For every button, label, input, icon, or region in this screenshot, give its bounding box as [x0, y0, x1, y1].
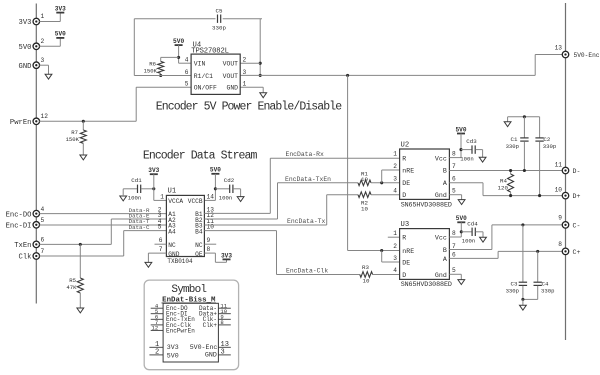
wire U1 GND pin7: [148, 253, 166, 262]
svg-text:8: 8: [220, 319, 223, 326]
svg-text:C1: C1: [511, 136, 518, 143]
wire U3 R stub: [388, 236, 400, 238]
junction 5V0-Enc / U3 enable: [346, 74, 349, 77]
wire Cd1 left: [123, 189, 137, 196]
ground (Cd3): [479, 157, 486, 162]
ground (U3): [458, 280, 465, 285]
wire R1/C1 pin6: [134, 75, 191, 77]
svg-text:330p: 330p: [506, 287, 519, 294]
symbol right pins lower: [190, 341, 231, 358]
resistor R5 47K: [66, 244, 83, 308]
svg-text:PwrEn: PwrEn: [10, 119, 32, 127]
junction PwrEn/R7: [82, 120, 85, 123]
wire 5V0 to VIN: [179, 45, 192, 63]
svg-text:C-: C-: [573, 222, 581, 229]
wire U2 A to D+: [449, 183, 562, 196]
svg-text:VCCB: VCCB: [188, 198, 203, 205]
svg-text:C+: C+: [573, 249, 581, 256]
junction 5V0/Cd2/VCCB: [214, 187, 217, 190]
svg-text:Enc-DI: Enc-DI: [6, 223, 32, 231]
svg-text:U3: U3: [401, 221, 410, 229]
svg-text:A4: A4: [168, 228, 176, 235]
pin 1 3V3: [19, 13, 45, 27]
ground (R5): [77, 308, 84, 313]
capacitor C5 330p: [212, 7, 226, 31]
svg-text:C3: C3: [511, 280, 518, 287]
svg-text:VIN: VIN: [194, 61, 206, 68]
svg-text:R7: R7: [71, 129, 78, 136]
svg-text:EncData-Tx: EncData-Tx: [287, 218, 326, 225]
junction 5V0/Cd3/Vcc U2: [459, 148, 462, 151]
svg-text:Clk: Clk: [19, 254, 32, 262]
svg-text:Vcc: Vcc: [435, 155, 447, 162]
svg-text:GND: GND: [205, 351, 217, 358]
wire Cd4 right: [476, 232, 484, 237]
pin 10 D+: [555, 186, 581, 200]
ground (C3/C4): [520, 305, 527, 310]
wire VOUT pin2: [240, 62, 260, 64]
U4 pin numbers: [185, 57, 247, 88]
ground (Cd1): [120, 196, 127, 201]
svg-text:R4: R4: [500, 177, 507, 184]
U3 right pin numbers: [452, 230, 456, 274]
wire U1 OE pin8: [204, 253, 226, 262]
junction 3V3/Cd1/VCCA: [152, 187, 155, 190]
U1 B-side pin numbers: [207, 207, 215, 254]
svg-text:Cd1: Cd1: [131, 177, 142, 184]
svg-text:C5: C5: [216, 7, 223, 14]
svg-text:5V0: 5V0: [19, 44, 32, 52]
resistor R6 150K: [144, 60, 164, 74]
U2 left pin numbers: [393, 151, 397, 195]
svg-text:GND: GND: [19, 63, 32, 71]
svg-text:5V0: 5V0: [210, 167, 221, 174]
svg-text:Gnd: Gnd: [435, 272, 447, 279]
svg-text:330p: 330p: [541, 287, 554, 294]
svg-text:A: A: [443, 180, 447, 187]
ground (C1/C2): [504, 122, 511, 127]
svg-text:R: R: [402, 235, 406, 242]
svg-text:R6: R6: [149, 60, 156, 67]
power 3V3 (pin1): [55, 5, 66, 12]
net label EncData-Clk: [286, 268, 328, 275]
svg-text:3: 3: [221, 349, 225, 357]
wire R3 to U3 D: [373, 274, 401, 276]
svg-text:SN65HVD3088ED: SN65HVD3088ED: [401, 281, 452, 289]
symbol left pins lower: [149, 341, 178, 360]
svg-text:R3: R3: [362, 264, 369, 271]
svg-text:5V0-Enc: 5V0-Enc: [574, 52, 600, 59]
svg-text:R: R: [402, 155, 406, 162]
svg-text:3: 3: [393, 176, 397, 183]
capacitor C1 330p: [506, 117, 529, 171]
pin 5 Enc-DI: [6, 217, 45, 231]
svg-text:U1: U1: [168, 187, 177, 195]
svg-text:5V0: 5V0: [456, 126, 467, 133]
ground (Cd2): [237, 197, 244, 202]
ground (pin3): [45, 74, 52, 79]
wire Cd3 left: [461, 149, 472, 151]
wire Cd2 right: [233, 189, 241, 197]
pin 2 5V0: [19, 38, 45, 52]
symbol subtitle EnDat-Biss_M: [162, 297, 217, 305]
junction C3/C- row: [521, 223, 524, 226]
svg-text:3V3: 3V3: [148, 167, 159, 174]
pin 13 5V0-Enc: [555, 44, 600, 59]
IC U2 SN65HVD3088ED box: [400, 142, 452, 210]
wire C3/C4 to ground: [522, 299, 524, 305]
svg-text:TxEn: TxEn: [14, 242, 31, 250]
svg-text:GND: GND: [168, 251, 179, 258]
svg-text:B: B: [443, 168, 447, 175]
svg-text:R1/C1: R1/C1: [194, 73, 213, 80]
pin 7 Clk: [19, 248, 45, 262]
resistor R4 120: [498, 171, 514, 196]
symbol right pins upper: [199, 302, 231, 329]
svg-text:6: 6: [452, 251, 456, 258]
svg-text:Gnd: Gnd: [435, 192, 447, 199]
wire U1 NC9 stub: [204, 243, 216, 245]
wire U1 NC6 stub: [155, 243, 167, 245]
wire Cd4 left: [461, 231, 472, 233]
svg-text:C2: C2: [543, 136, 550, 143]
svg-text:4: 4: [41, 206, 45, 213]
wire U2 nRE tie: [382, 170, 401, 183]
svg-text:VCCA: VCCA: [168, 198, 183, 205]
U3 right pin labels: [435, 235, 447, 279]
svg-text:2: 2: [393, 243, 397, 250]
svg-text:47K: 47K: [66, 284, 77, 291]
U3 left pin numbers: [393, 230, 397, 274]
pin 11 D-: [555, 161, 581, 175]
junction R4 top: [509, 169, 512, 172]
svg-text:2: 2: [243, 57, 247, 64]
net label Data-E: [129, 212, 150, 219]
power 3V3 (U1 A-side): [148, 167, 159, 174]
svg-text:Encoder 5V Power Enable/Disabl: Encoder 5V Power Enable/Disable: [156, 101, 342, 114]
wire 5V0-Enc net (VOUT pin3): [240, 55, 562, 76]
pin 12 PwrEn: [10, 113, 48, 127]
U1 pin1 number: [160, 193, 164, 200]
svg-text:U2: U2: [401, 142, 410, 150]
U2 left pin labels: [402, 155, 414, 199]
wire pin3 to ground: [39, 65, 48, 74]
U1 left pin labels: [168, 198, 183, 258]
svg-text:TXB0104: TXB0104: [167, 258, 193, 265]
junction 5V0/R6: [177, 56, 180, 59]
svg-text:D-: D-: [573, 168, 581, 175]
junction C4/C+ row: [536, 250, 539, 253]
svg-text:7: 7: [452, 243, 456, 250]
svg-text:7: 7: [41, 248, 45, 255]
wire GND pin1 (U4): [240, 87, 263, 93]
pin 4 Enc-DO: [6, 206, 45, 219]
IC U1 TXB0104 box: [166, 187, 204, 265]
svg-text:5: 5: [41, 217, 45, 224]
net label Data-C: [129, 224, 150, 231]
svg-text:EncData-TxEn: EncData-TxEn: [285, 176, 331, 183]
svg-text:100n: 100n: [219, 195, 232, 202]
right connector rail: [565, 3, 567, 340]
junction C2/A row: [538, 194, 541, 197]
svg-text:5V0: 5V0: [167, 353, 179, 360]
symbol title: [171, 284, 206, 296]
resistor R1 10: [358, 170, 371, 185]
power 5V0 (U2): [456, 126, 467, 133]
wire EncData-Rx: [204, 158, 400, 213]
svg-text:6: 6: [185, 69, 189, 76]
svg-text:R5: R5: [69, 277, 76, 284]
wire 5V0 stem to VCCB: [204, 174, 215, 201]
svg-text:8: 8: [207, 246, 211, 253]
capacitor C2 330p: [535, 117, 556, 196]
svg-text:5V0: 5V0: [173, 38, 184, 45]
power 3V3 (OE): [221, 253, 232, 260]
symbol left pins upper: [151, 302, 196, 334]
U4 pin labels: [194, 61, 238, 92]
svg-text:10: 10: [555, 186, 563, 193]
junction C1 top: [523, 115, 526, 118]
capacitor Cd4 100n: [462, 220, 478, 244]
svg-text:5: 5: [452, 267, 456, 274]
power 5V0 (U1 B-side): [210, 167, 221, 174]
wire R2 to U2 D: [371, 194, 400, 196]
net label EncData-Rx: [286, 151, 325, 158]
U1 pin14 number: [207, 193, 215, 200]
svg-text:Symbol: Symbol: [171, 284, 206, 296]
svg-text:3: 3: [393, 255, 397, 262]
ground (R7): [80, 155, 87, 160]
svg-text:100n: 100n: [128, 195, 141, 202]
svg-text:B: B: [443, 247, 447, 254]
svg-text:Vcc: Vcc: [435, 235, 447, 242]
wire Clk to U1 A4: [39, 231, 166, 256]
svg-text:TPS27082L: TPS27082L: [191, 47, 228, 55]
svg-text:2: 2: [41, 38, 45, 45]
U1 A-side pin numbers: [158, 207, 163, 254]
capacitor Cd3 100n: [460, 138, 477, 162]
ground (U2): [458, 200, 465, 205]
pin 6 TxEn: [14, 237, 44, 251]
wire U2 B to D-: [449, 170, 562, 172]
svg-text:Clk+: Clk+: [203, 322, 218, 329]
svg-text:DE: DE: [402, 260, 410, 267]
svg-text:C4: C4: [542, 280, 549, 287]
junction C5/VOUT3: [259, 74, 262, 77]
svg-text:5V0-Enc: 5V0-Enc: [190, 344, 218, 351]
svg-text:1: 1: [160, 193, 164, 200]
junction U3 nRE/DE: [380, 249, 383, 252]
svg-text:11: 11: [555, 161, 563, 168]
wire EncData-TxEn: [204, 183, 358, 219]
wire C1/C2 ground bus: [508, 117, 540, 122]
svg-text:Encoder Data Stream: Encoder Data Stream: [143, 149, 258, 162]
svg-text:12: 12: [151, 325, 158, 332]
op IC U4 TPS27082L box: [191, 42, 240, 95]
capacitor Cd2 100n: [219, 177, 235, 201]
svg-text:150K: 150K: [66, 136, 80, 143]
pin 9 C-: [558, 215, 580, 230]
svg-text:3: 3: [243, 69, 247, 76]
junction R6/R1C1: [159, 74, 162, 77]
svg-text:EncData-Clk: EncData-Clk: [286, 268, 328, 275]
wire 3V3 stem to VCCA: [154, 174, 167, 200]
U2 right pin numbers: [452, 151, 456, 195]
svg-text:14: 14: [207, 193, 215, 200]
svg-text:NC: NC: [168, 242, 176, 249]
svg-text:GND: GND: [226, 85, 238, 92]
svg-text:5V0: 5V0: [55, 31, 66, 38]
wire EncData-Tx: [204, 195, 358, 225]
svg-text:2: 2: [155, 349, 159, 357]
wire U2 Gnd: [449, 195, 461, 200]
wire pin2 to 5V0 rail: [39, 38, 60, 46]
wire Cd3 right: [475, 150, 482, 158]
svg-text:3V3: 3V3: [55, 5, 66, 12]
svg-text:10: 10: [361, 176, 368, 183]
wire R1 to U2 DE: [371, 182, 400, 184]
wire Cd2 left: [215, 188, 229, 190]
svg-text:VOUT: VOUT: [223, 73, 239, 80]
svg-text:100n: 100n: [462, 237, 475, 244]
net label EncData-TxEn: [285, 176, 331, 183]
svg-text:1: 1: [243, 81, 247, 88]
svg-text:4: 4: [393, 267, 397, 274]
svg-text:DE: DE: [402, 180, 410, 187]
wire U3 A to C+: [449, 251, 562, 258]
wire EncData-Clk: [204, 231, 359, 275]
wire U3 B to C-: [449, 225, 562, 250]
net label Data-R: [129, 207, 150, 214]
capacitor Cd1 100n: [128, 177, 142, 201]
svg-text:A: A: [443, 256, 447, 263]
svg-text:3V3: 3V3: [167, 344, 179, 351]
symbol body box: [163, 303, 218, 362]
svg-text:4: 4: [393, 188, 397, 195]
svg-text:6: 6: [41, 237, 45, 244]
svg-text:4: 4: [185, 57, 189, 64]
svg-text:8: 8: [452, 230, 456, 237]
svg-text:D: D: [402, 272, 406, 279]
resistor R7 150K: [66, 121, 87, 155]
svg-text:OE: OE: [195, 251, 203, 258]
pin 3 GND: [19, 57, 45, 71]
wire Cd1 right: [141, 188, 154, 190]
svg-text:9: 9: [207, 237, 211, 244]
IC U3 SN65HVD3088ED box: [400, 221, 452, 289]
wire C5 loop left/top: [134, 19, 262, 76]
left connector rail: [35, 4, 37, 304]
svg-text:3: 3: [41, 57, 45, 64]
power 5V0 (U4): [173, 38, 184, 45]
title Encoder Data Stream: [143, 149, 258, 162]
wire pin1 to 3V3 rail: [39, 13, 60, 22]
capacitor C3 330p: [506, 225, 528, 300]
junction 5V0/Cd4/Vcc U3: [460, 230, 463, 233]
svg-text:330p: 330p: [506, 143, 519, 150]
wire 5V0 to U3 Vcc: [449, 222, 461, 237]
wire PwrEn to U4 ON/OFF: [39, 87, 191, 121]
svg-text:330p: 330p: [543, 143, 556, 150]
junction C5/VOUT2: [259, 62, 262, 65]
svg-text:SN65HVD3088ED: SN65HVD3088ED: [401, 202, 452, 210]
svg-text:3V3: 3V3: [19, 19, 32, 27]
svg-text:NC: NC: [195, 242, 203, 249]
svg-text:5: 5: [185, 81, 189, 88]
svg-text:1: 1: [393, 151, 397, 158]
U1 right pin labels: [188, 198, 203, 258]
capacitor C4 330p: [523, 251, 555, 299]
svg-text:6: 6: [159, 237, 163, 244]
wire U3 DE tie: [382, 251, 401, 263]
svg-text:1: 1: [41, 13, 45, 20]
svg-text:330p: 330p: [212, 25, 226, 32]
svg-text:9: 9: [558, 215, 562, 222]
svg-text:6: 6: [452, 176, 456, 183]
svg-text:ON/OFF: ON/OFF: [194, 85, 217, 92]
wire U3 enable from 5V0-Enc: [348, 75, 401, 250]
wire TxEn to U1 A2: [39, 219, 166, 244]
svg-text:D: D: [402, 192, 406, 199]
svg-text:Cd4: Cd4: [467, 220, 478, 227]
wire Enc-DO to U1 A1: [39, 213, 166, 215]
junction R4 bottom: [509, 194, 512, 197]
svg-text:1: 1: [393, 230, 397, 237]
junction TxEn/R5: [79, 243, 82, 246]
svg-text:120: 120: [498, 184, 509, 191]
wire 5V0 to U2 Vcc: [449, 134, 461, 158]
wire U3 Gnd: [449, 274, 461, 279]
U3 left pin labels: [402, 235, 414, 279]
svg-text:2: 2: [393, 163, 397, 170]
svg-text:nRE: nRE: [402, 248, 414, 255]
svg-text:7: 7: [159, 246, 163, 253]
junction U2 nRE/DE: [380, 181, 383, 184]
U2 right pin labels: [435, 155, 447, 199]
power 5V0 (U3): [456, 215, 467, 222]
svg-text:3V3: 3V3: [221, 253, 232, 260]
ground (Cd4): [480, 237, 487, 242]
ground (U1): [145, 262, 152, 267]
power 5V0 (pin2): [55, 31, 66, 38]
svg-text:nRE: nRE: [402, 168, 414, 175]
symbol box frame: [144, 280, 238, 370]
svg-text:10: 10: [361, 206, 368, 213]
wire R6 top: [161, 57, 179, 61]
wire C5 loop right: [259, 19, 261, 76]
svg-text:8: 8: [452, 151, 456, 158]
svg-text:Data-C: Data-C: [129, 224, 150, 231]
junction C1/B row: [523, 169, 526, 172]
svg-text:VOUT: VOUT: [223, 61, 239, 68]
net label EncData-Tx: [287, 218, 326, 225]
net label Data-T: [129, 218, 150, 225]
pin 8 C+: [558, 241, 580, 256]
resistor R3 10: [360, 264, 373, 284]
svg-text:8: 8: [558, 241, 562, 248]
junction C3/C4 bottom: [521, 298, 524, 301]
svg-text:13: 13: [555, 44, 563, 51]
svg-text:7: 7: [452, 163, 456, 170]
svg-text:5V0: 5V0: [456, 215, 467, 222]
svg-text:B4: B4: [195, 228, 203, 235]
svg-text:D+: D+: [573, 193, 581, 200]
svg-text:10: 10: [363, 277, 370, 284]
svg-text:100n: 100n: [460, 155, 473, 162]
svg-text:Enc-DO: Enc-DO: [6, 211, 32, 219]
svg-text:EncPwrEn: EncPwrEn: [166, 327, 195, 334]
ground (U4): [260, 93, 267, 98]
